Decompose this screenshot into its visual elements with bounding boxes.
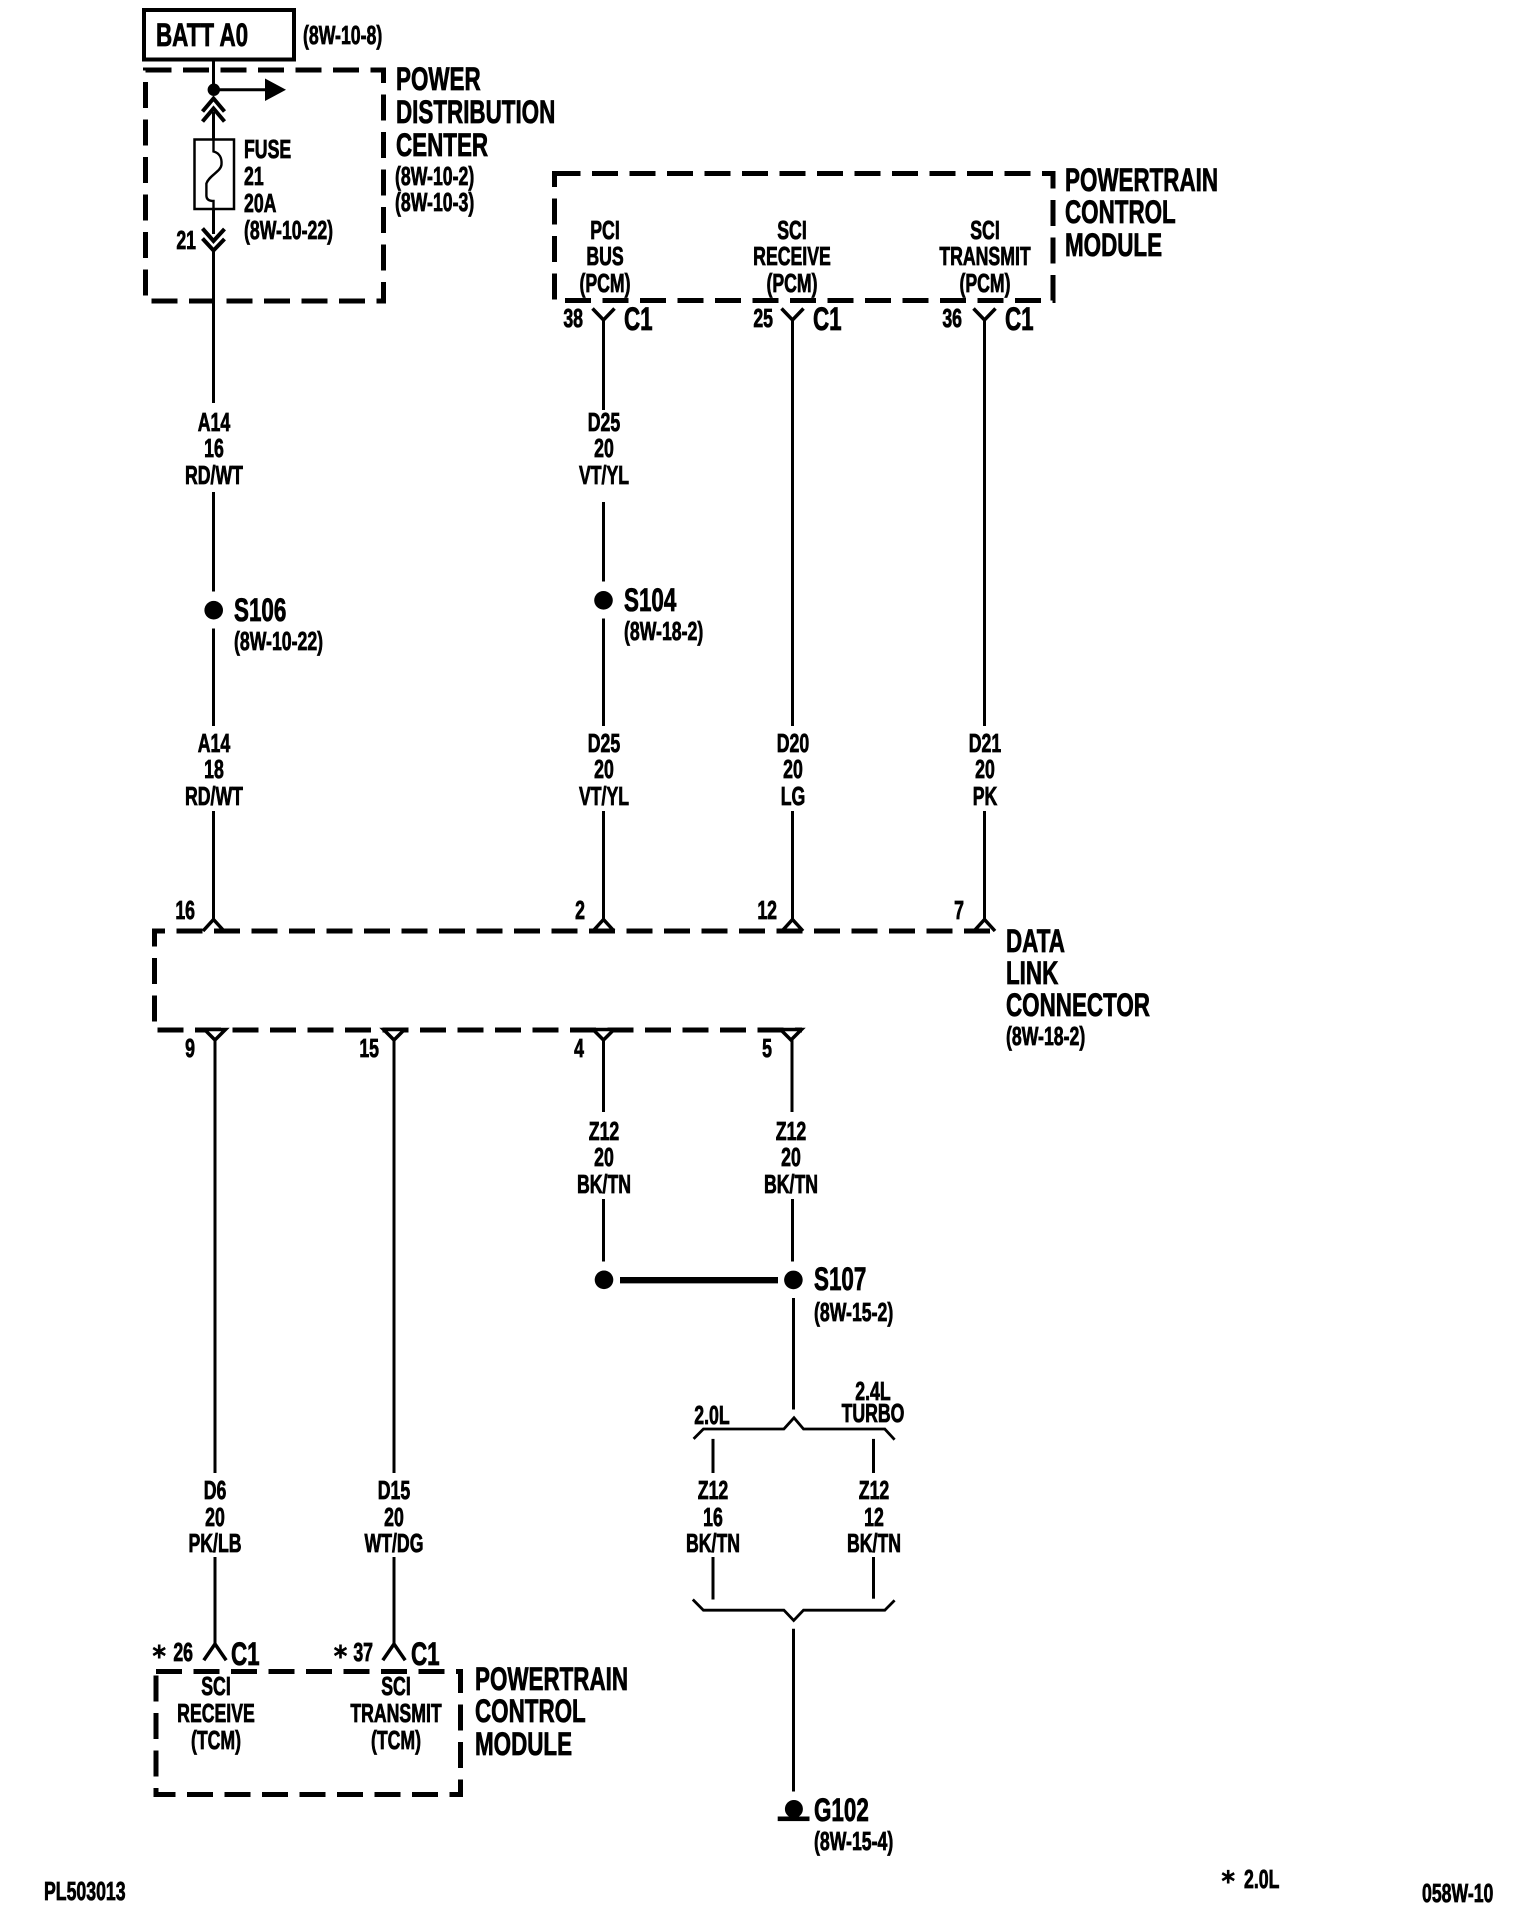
pin 26: [152, 1639, 193, 1666]
connector C1 (PCM pin 36): [1005, 303, 1034, 336]
label BATT A0: [156, 19, 248, 52]
pin 21: [155, 227, 196, 254]
wire Z12 below S107: [792, 1298, 795, 1410]
wire Z12 from DLC pin 5: [791, 1038, 794, 1112]
wire Z12 to G102: [792, 1629, 795, 1792]
asterisk at TCM pin 26: [153, 1645, 165, 1659]
label S106: [234, 594, 286, 627]
pin 4: [543, 1035, 584, 1062]
wire label Z12 20 BK/TN (pin 4): [542, 1118, 664, 1198]
wire Z12 16 branch upper: [712, 1439, 715, 1473]
wire A14 segment to S106: [212, 492, 215, 592]
connector chevrons 21 (female, down): [203, 229, 225, 251]
wire Z12 16 branch lower: [712, 1557, 715, 1600]
PCM C1 pin 25 connector: [782, 309, 804, 321]
wire label Z12 16 BK/TN: [652, 1477, 774, 1557]
engine label 2.4L TURBO: [811, 1381, 933, 1424]
ref (8W-18-2) under DLC: [1006, 1023, 1085, 1050]
DLC pin 12 connector: [782, 920, 803, 932]
wire label D21 20 PK: [923, 730, 1045, 810]
pin 16: [154, 897, 195, 924]
TCM C1 pin 26 connector: [204, 1644, 226, 1660]
connector C1 (TCM pin 26): [231, 1638, 260, 1671]
wire D25 below S104: [602, 619, 605, 727]
wire D25 to DLC pin 2: [602, 811, 605, 921]
ref (8W-18-2) under S104: [624, 618, 703, 645]
label PCI BUS (PCM): [544, 217, 666, 297]
wire Z12 to S107: [791, 1199, 794, 1262]
label FUSE 21 20A: [244, 136, 333, 244]
wire D25 from PCM: [602, 319, 605, 410]
DLC pin 5 connector: [781, 1030, 802, 1041]
wire label A14 16 RD/WT: [152, 409, 274, 489]
wire label D25 20 VT/YL: [542, 409, 664, 489]
refs (8W-10-2) (8W-10-3): [395, 163, 474, 216]
label G102: [814, 1794, 869, 1827]
PCM C1 pin 38 connector: [593, 309, 615, 321]
splice dot left of S107: [595, 1271, 614, 1290]
wire label A14 18 RD/WT: [152, 730, 274, 810]
connector C1 (PCM pin 25): [813, 303, 842, 336]
DLC pin 15 connector: [384, 1030, 405, 1041]
wire D20 20 LG upper: [791, 319, 794, 726]
wire A14 to DLC pin 16: [212, 811, 215, 921]
wire BATT A0 to splice dot: [212, 61, 215, 84]
wire arrow to other circuits: [219, 88, 266, 91]
sheet ref PL503013: [44, 1878, 126, 1905]
ref (8W-10-8): [303, 22, 382, 49]
pin 36: [921, 305, 962, 332]
label SCI TRANSMIT (TCM): [334, 1673, 456, 1754]
arrowhead: [265, 79, 286, 102]
label POWERTRAIN CONTROL MODULE (TCM): [475, 1663, 628, 1761]
wire below fuse: [212, 209, 215, 234]
fuse 21 body: [195, 140, 235, 210]
wire Z12 from DLC pin 4: [602, 1038, 605, 1112]
wire label Z12 12 BK/TN: [812, 1477, 934, 1557]
asterisk footnote 2.0L: [1222, 1870, 1234, 1884]
pin 9: [154, 1035, 195, 1062]
wire D21 20 PK upper: [983, 319, 986, 726]
TCM C1 pin 37 connector: [383, 1644, 405, 1660]
label SCI RECEIVE (PCM): [731, 217, 853, 297]
wire D20 to DLC pin 12: [791, 811, 794, 921]
label S107: [814, 1263, 866, 1296]
connector C1 (PCM pin 38): [624, 303, 653, 336]
wire Z12 12 branch upper: [872, 1439, 875, 1473]
label DATA LINK CONNECTOR: [1006, 925, 1150, 1021]
ref (8W-10-22) under S106: [234, 628, 323, 655]
wire Z12 12 branch lower: [872, 1557, 875, 1599]
powertrain control module (PCM) dashed box: [555, 174, 1054, 301]
pin 5: [731, 1035, 772, 1062]
label SCI RECEIVE (TCM): [154, 1673, 276, 1754]
ground G102 dot: [785, 1800, 803, 1818]
pin 37: [333, 1639, 374, 1666]
wire label Z12 20 BK/TN (pin 5): [730, 1118, 852, 1198]
PCM C1 pin 36 connector: [974, 309, 996, 321]
engine label 2.0L: [651, 1402, 773, 1429]
data link connector dashed outline: [155, 931, 991, 1030]
asterisk at TCM pin 37: [335, 1645, 347, 1659]
wire into fuse: [212, 112, 215, 140]
splice bus S107: [620, 1277, 778, 1283]
connector C1 (TCM pin 37): [411, 1638, 440, 1671]
DLC pin 4 connector: [593, 1030, 614, 1041]
ground G102 bar: [778, 1817, 810, 1822]
ref (8W-15-4) under G102: [814, 1828, 893, 1855]
pin 2: [544, 897, 585, 924]
wire D6 from DLC pin 9: [214, 1038, 217, 1473]
splice S104 dot: [594, 591, 613, 610]
label POWERTRAIN CONTROL MODULE (PCM): [1065, 164, 1218, 262]
pin 7: [923, 897, 964, 924]
wire D25 segment to S104: [602, 502, 605, 582]
connector chevrons (female, up): [203, 99, 225, 122]
wire D21 to DLC pin 7: [983, 811, 986, 921]
wire label D15 20 WT/DG: [333, 1477, 455, 1557]
merge brace to ground: [693, 1600, 895, 1621]
wire A14 16 RD/WT upper: [212, 251, 215, 403]
wire label D6 20 PK/LB: [154, 1477, 276, 1557]
splice S107 dot: [784, 1271, 803, 1290]
wire Z12 to S107 left: [602, 1199, 605, 1262]
wire D15 from DLC pin 15: [393, 1038, 396, 1473]
DLC pin 7 connector: [974, 920, 995, 932]
pin 12: [736, 897, 777, 924]
power distribution center dashed box: [146, 70, 384, 301]
sheet ref 058W-10: [1422, 1880, 1493, 1907]
ref (8W-15-2) under S107: [814, 1299, 893, 1326]
wire D15 to TCM pin 37: [393, 1557, 396, 1644]
split brace 2.0L / 2.4L TURBO: [694, 1418, 895, 1440]
wire label D25 20 VT/YL lower: [542, 730, 664, 810]
fusible link box BATT A0: [144, 10, 294, 60]
label SCI TRANSMIT (PCM): [923, 217, 1045, 297]
node junction dot: [208, 84, 220, 96]
pin 25: [733, 305, 774, 332]
wire label D20 20 LG: [731, 730, 853, 810]
label POWER DISTRIBUTION CENTER: [396, 63, 555, 162]
footnote 2.0L: [1244, 1866, 1279, 1893]
pin 38: [543, 305, 584, 332]
wire D6 to TCM pin 26: [214, 1557, 217, 1644]
pin 15: [339, 1035, 380, 1062]
DLC pin 16 connector: [203, 920, 224, 932]
transmission control module (TCM) dashed box: [156, 1672, 461, 1795]
DLC pin 9 connector: [205, 1030, 226, 1041]
DLC pin 2 connector: [593, 920, 614, 932]
wire A14 18 RD/WT below S106: [212, 629, 215, 727]
splice S106 dot: [204, 601, 223, 620]
fuse element curve: [206, 140, 221, 210]
label S104: [624, 584, 676, 617]
